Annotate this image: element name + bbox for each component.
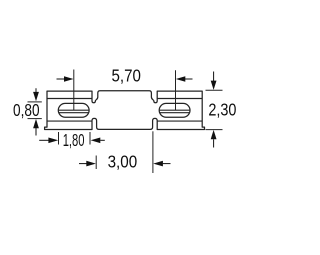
dim 2,30 lower extension line	[206, 129, 223, 131]
svg-text:1,80: 1,80	[63, 130, 85, 150]
right contact dimple (stadium)	[159, 103, 190, 117]
dim 3,00 left extension line	[95, 156, 97, 170]
dim 0,80 upper arrow	[35, 88, 37, 92]
left dimple chord lower	[59, 112, 88, 114]
left cap interior upper line	[47, 98, 92, 100]
dim 0,80 upper extension line	[28, 101, 42, 103]
dim 2,30 upper arrow	[213, 72, 215, 82]
right dimple chord upper	[160, 109, 190, 111]
dim 3,00 left arrow	[79, 163, 87, 165]
dim 1,80 right arrow	[100, 139, 105, 141]
dim 5,70 right arrow	[185, 78, 193, 80]
svg-text:3,00: 3,00	[108, 152, 138, 172]
right cap interior upper line	[157, 98, 202, 100]
dim 2,30 upper extension line	[206, 89, 223, 91]
svg-text:5,70: 5,70	[112, 65, 142, 85]
dim 1,80 left arrow	[39, 139, 48, 141]
dim 0,80 lower arrow	[35, 128, 37, 136]
dim 1,80 right extension line	[89, 132, 91, 145]
dim 2,30 lower arrow	[213, 139, 215, 147]
right dimple chord lower	[160, 112, 189, 114]
svg-text:2,30: 2,30	[208, 100, 236, 120]
left cap interior lower line	[47, 120, 92, 122]
dim 5,70 right extension line	[175, 70, 177, 110]
dim 5,70 left extension line	[73, 70, 75, 111]
dim 3,00 right arrow	[163, 163, 171, 165]
left dimple chord upper	[59, 109, 89, 111]
right cap interior lower line	[157, 120, 202, 122]
dim 5,70 left arrow	[57, 78, 65, 80]
dim 1,80 left extension line	[58, 132, 60, 145]
dim 0,80 lower extension line	[28, 118, 42, 120]
fuse element body outline	[45, 91, 205, 130]
dim 3,00 right extension line	[152, 131, 154, 173]
left contact dimple (stadium)	[58, 103, 89, 117]
svg-text:0,80: 0,80	[13, 100, 40, 120]
